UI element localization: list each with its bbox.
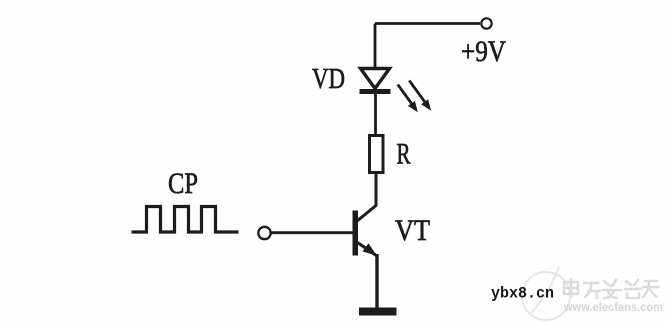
CP pulse waveform [132,207,239,233]
svg-text:VT: VT [395,214,430,247]
svg-text:VD: VD [312,64,345,95]
wire LED cathode to resistor [374,93,377,136]
LED light arrow 2 (upper-right) [409,80,431,110]
svg-text:+9V: +9V [461,35,506,68]
watermark logo circle (faint) [522,267,570,320]
wire base (input to transistor) [272,231,354,234]
svg-text:www.elecfans.com: www.elecfans.com [563,300,663,314]
resistor R (rectangle body) [370,136,384,173]
svg-text:R: R [397,138,411,171]
watermark 电子发烧友 (faint stylized glyph strokes) [564,279,659,298]
LED VD (diode triangle) [361,69,390,89]
wire resistor to collector (vertical + bend) [357,173,376,222]
terminal +9V (open circle) [481,18,491,28]
svg-text:ybx8.cn: ybx8.cn [491,285,554,303]
LED light arrow 1 (lower-left) [398,84,418,112]
transistor VT base bar [353,211,359,256]
wire emitter to ground [375,254,378,308]
wire from rail down to LED anode [374,24,377,69]
input terminal (open circle) [258,227,270,239]
LED VD cathode bar [360,89,391,94]
svg-text:CP: CP [168,167,198,200]
ground (solid bar) [359,308,397,316]
wire top horizontal (+9V rail) [375,22,480,25]
transistor VT emitter (diagonal with arrow) [358,243,378,257]
